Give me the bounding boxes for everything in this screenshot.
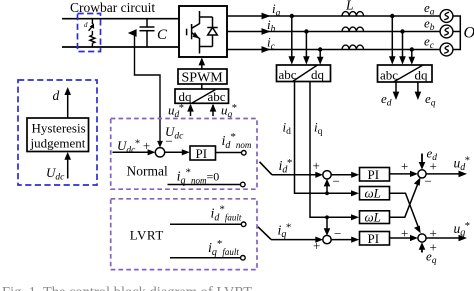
svg-text:PI: PI [368,231,380,246]
abc-dq voltage transform block [378,65,433,82]
junction b2 [400,29,404,33]
SPWM arrow to converter [201,59,203,69]
svg-text:SPWM: SPWM [182,71,224,86]
dq-abc modulation block [175,89,229,103]
switch blade d [260,162,273,175]
svg-text:−: − [425,174,432,189]
wire PI to nom contact [216,152,242,154]
uq* output arrow [426,237,463,239]
PI block normal [190,146,216,160]
switch blade q [258,227,271,240]
wire S0 to PI [164,151,186,153]
summing junction S2 [323,235,331,243]
svg-text:dq: dq [311,67,325,82]
wire iq to sum S2 [326,217,328,230]
inductor La [342,12,364,16]
PI block d-axis [360,168,390,182]
ed output arrow [395,82,397,92]
wire DC- rail [62,46,179,48]
wire wL2 to S4 [390,193,420,229]
wire b to current abc-dq [305,32,307,58]
converter IGBT [187,11,200,54]
wire a to voltage abc-dq [391,16,393,57]
hysteresis judgement block [27,118,89,152]
contact id nom [242,151,247,156]
ed feedforward arrow [421,154,423,166]
wire id to sum S1 [326,181,328,194]
abc-dq current transform block [277,65,331,82]
wire id from transform [295,82,356,194]
svg-text:dq: dq [415,68,429,83]
uq* input arrow [212,105,214,116]
contact id fault [241,222,246,227]
wL block cross d [360,187,390,200]
junction b1 [304,29,308,33]
svg-text:PI: PI [368,167,380,182]
wire Udc* into S0 [113,151,153,153]
wire S1 to PI1 [331,174,356,176]
junction a1 [290,14,294,18]
svg-text:L: L [345,0,354,13]
wire SPWM to dq-abc [201,84,203,89]
wL block cross q [360,211,390,224]
svg-text:ωL: ωL [365,186,381,201]
svg-text:+: + [430,159,437,174]
inductor Lb [342,27,364,31]
junction id branch [325,191,329,195]
Udc measurement wire to Normal loop [131,33,160,145]
summing junction S0 [155,148,164,157]
AC source ec [440,43,453,56]
wire id fault line [170,223,241,225]
ud* input arrow [190,105,192,116]
wire DC+ rail [62,18,179,20]
junction a2 [390,14,394,18]
svg-text:O: O [464,25,474,42]
AC source ea [440,10,453,23]
ud* output arrow [426,173,463,175]
svg-text:+: + [313,158,320,173]
wire iq fault line [170,257,240,259]
svg-text:−: − [166,134,173,149]
neutral bus wire O [453,16,460,50]
svg-text:LVRT: LVRT [130,228,164,243]
svg-text:PI: PI [196,146,208,161]
PI block q-axis [360,232,390,246]
capacitor C [140,19,155,47]
wire phase b [227,31,440,33]
junction c1 [318,47,322,51]
wire S2 to PI4 [331,239,356,241]
wire PI1 to S3 [390,173,415,175]
wire c to current abc-dq [319,50,321,59]
svg-text:Normal: Normal [127,164,168,179]
summing junction S4 [418,234,426,242]
converter U1 box [179,6,227,57]
eq output arrow [417,82,419,92]
wire id* to S1 [272,174,320,176]
svg-text:+: + [313,238,320,253]
wire iq from transform [310,82,355,218]
Normal dashed enclosure [111,119,257,190]
wire iq nom line [168,184,241,186]
LVRT dashed enclosure [111,199,257,270]
svg-text:dq: dq [179,89,193,104]
svg-text:abc: abc [380,68,398,83]
Udc input arrow to hysteresis [67,154,69,179]
svg-text:d: d [53,88,60,103]
wire phase c [227,49,440,51]
eq feedforward arrow [421,246,423,253]
wire a to current abc-dq [291,16,293,57]
wire wL3 to S3 [390,181,420,217]
crowbar switch and resistor branch [89,19,95,47]
svg-text:d: d [84,21,88,29]
svg-text:+: + [401,226,408,241]
svg-text:+: + [401,159,408,174]
junction iq branch [325,215,329,219]
crowbar dashed enclosure [78,14,101,52]
svg-text:abc: abc [279,67,297,82]
junction c2 [410,47,414,51]
converter anti-parallel diode [200,17,218,47]
inductor Lc [342,45,364,49]
svg-text:judgement: judgement [30,136,86,151]
svg-text:Hysteresis: Hysteresis [32,121,86,136]
wire b to voltage abc-dq [402,32,404,58]
contact iq nom [241,182,246,187]
wire phase a [227,15,440,17]
contact iq fault [241,255,246,260]
SPWM block [178,69,227,84]
wire iq* to S2 [271,239,320,241]
svg-text:+: + [430,240,437,255]
d output arrow [67,89,69,118]
summing junction S1 [323,171,331,179]
svg-text:−: − [334,226,341,241]
AC source eb [440,25,453,38]
svg-text:Fig. 1. The control block di: Fig. 1. The control block diagram of LVR… [2,285,252,291]
svg-text:C: C [157,27,168,43]
wire c to voltage abc-dq [411,50,413,59]
svg-text:ωL: ωL [365,210,381,225]
wire PI4 to S4 [390,237,415,239]
svg-text:−: − [333,174,340,189]
hysteresis dashed enclosure [18,80,97,185]
summing junction S3 [418,170,426,178]
